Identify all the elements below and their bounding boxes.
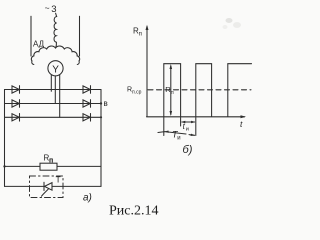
diode VD6: [83, 114, 91, 122]
wire phase B: [54, 76, 56, 104]
dimension Tи: [164, 118, 196, 136]
svg-text:АД: АД: [33, 40, 45, 49]
dashed level Rп.ср: [148, 89, 251, 91]
svg-text:п.ср: п.ср: [132, 90, 142, 96]
svg-text:Y: Y: [52, 64, 59, 75]
diode VD2: [12, 100, 20, 108]
svg-text:а): а): [83, 193, 92, 204]
svg-text:Т: Т: [56, 175, 61, 185]
svg-text:и: и: [177, 136, 180, 142]
diode VD3: [12, 114, 20, 122]
pulse 3: [228, 64, 252, 117]
wire phase C: [59, 75, 61, 117]
wire right bus: [100, 90, 102, 187]
motor rotor M: [48, 61, 63, 76]
svg-text:~: ~: [45, 3, 50, 13]
axis Rп vertical: [146, 27, 148, 117]
wire rail 3: [5, 116, 102, 118]
svg-text:п: п: [49, 158, 53, 165]
axis t horizontal: [147, 116, 245, 118]
rotor winding fan: [31, 46, 79, 64]
resistor Rп: [40, 163, 57, 170]
dimension arrow Rп amplitude: [170, 66, 172, 115]
thyristor T: [44, 182, 52, 190]
stator winding: [54, 17, 57, 48]
wire phase A: [50, 75, 52, 91]
wire left bus: [4, 90, 6, 187]
dashed enclosure: [30, 176, 64, 198]
diode VD5: [83, 100, 91, 108]
svg-text:п: п: [139, 32, 142, 38]
thyristor gate: [42, 189, 49, 196]
wire supply lead: [56, 13, 57, 16]
pulse 1: [164, 64, 181, 117]
svg-text:Рис.2.14: Рис.2.14: [109, 204, 159, 219]
diode VD4: [83, 86, 91, 94]
svg-text:и: и: [186, 126, 189, 132]
pulse 2: [196, 64, 212, 117]
svg-text:в: в: [104, 99, 108, 108]
junction left bus: [3, 165, 5, 167]
motor frame left: [30, 16, 32, 56]
svg-text:п: п: [171, 90, 174, 96]
junction right bus: [100, 102, 102, 104]
wire rail 1: [5, 89, 102, 91]
svg-text:б): б): [183, 144, 193, 156]
motor frame right: [79, 16, 81, 56]
dimension tи: [181, 118, 196, 127]
wire thyristor rail: [5, 185, 102, 187]
diode VD1: [12, 86, 20, 94]
wire rail 2: [5, 103, 102, 105]
junction right bus rail 3: [100, 116, 102, 118]
wire resistor rail: [5, 165, 102, 167]
